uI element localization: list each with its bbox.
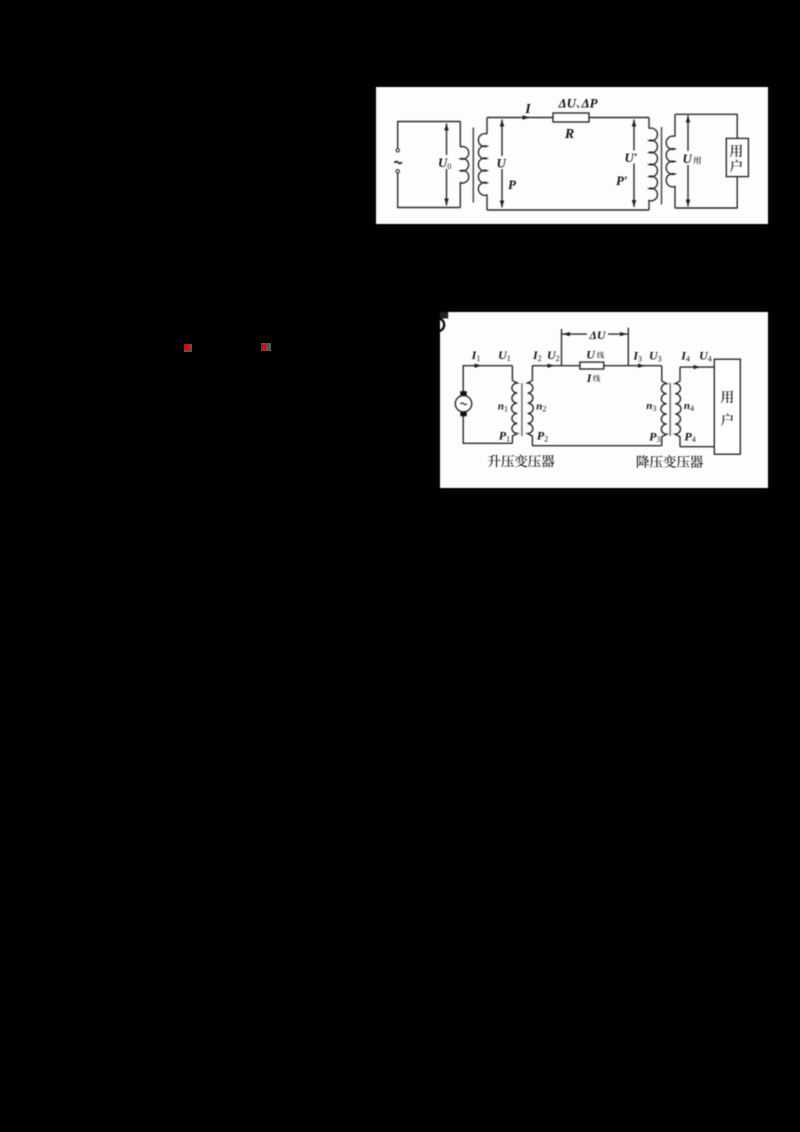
svg-text:I: I [586, 371, 593, 385]
load box user [714, 359, 740, 454]
svg-text:U4: U4 [699, 349, 712, 364]
wire: transmission line top [487, 117, 649, 119]
diagram panel 1: transmission line power loss [376, 87, 768, 224]
wire: user loop bottom [680, 446, 714, 448]
transformer T2 secondary coil [666, 114, 675, 208]
svg-text:I1: I1 [471, 348, 481, 363]
caption step-up transformer [488, 455, 501, 468]
svg-text:U′: U′ [625, 150, 638, 165]
svg-text:R: R [564, 127, 574, 142]
node U dimension arrow [501, 120, 503, 208]
wire: generator loop [398, 122, 461, 208]
node Uprime dimension arrow [633, 120, 635, 208]
label Uprime [624, 151, 641, 164]
load box user [726, 138, 748, 176]
current I1 arrowhead [475, 364, 482, 368]
current I arrowhead [523, 115, 531, 120]
transformer step-down secondary coil n4 [675, 367, 681, 447]
wire: transmission line bottom [487, 209, 649, 211]
current I4 arrowhead [694, 365, 701, 369]
svg-text:ΔU: ΔU [557, 96, 576, 111]
svg-text:n3: n3 [646, 400, 656, 413]
transformer step-up primary coil n1 [511, 366, 517, 444]
red bullet 1 [184, 344, 192, 352]
transformer T2 primary coil [649, 118, 657, 211]
svg-text:U1: U1 [498, 348, 511, 363]
svg-text:P1: P1 [499, 429, 510, 444]
svg-text:I4: I4 [680, 349, 690, 364]
label U_user [682, 151, 701, 165]
svg-text:U: U [497, 156, 507, 171]
wire: line top [532, 365, 661, 367]
AC source terminals [396, 149, 399, 152]
svg-text:n4: n4 [684, 400, 694, 413]
transformer T1 primary coil [460, 122, 468, 208]
svg-text:P4: P4 [684, 429, 695, 444]
svg-text:I3: I3 [632, 349, 642, 364]
svg-text:U: U [683, 151, 693, 166]
AC source tilde [394, 162, 402, 164]
svg-text:U3: U3 [649, 349, 662, 364]
transformer T2 core [661, 127, 663, 205]
current I2 arrowhead [548, 364, 555, 368]
current I3 arrowhead [638, 364, 645, 368]
svg-text:I2: I2 [532, 348, 542, 363]
svg-text:P: P [508, 177, 517, 192]
red bullet 2 [261, 343, 271, 351]
transformer step-up secondary coil n2 [528, 366, 534, 446]
dU dimension lines [561, 329, 563, 366]
transformer T1 secondary coil [478, 118, 487, 211]
svg-text:U: U [586, 348, 596, 362]
svg-text:ΔP: ΔP [581, 96, 599, 111]
svg-text:ΔU: ΔU [588, 328, 607, 342]
dU dimension arrow lines [562, 333, 588, 335]
svg-text:n1: n1 [498, 401, 508, 414]
resistor R box [553, 113, 589, 122]
wire: user loop [675, 114, 737, 208]
wire: generator loop [463, 366, 512, 444]
svg-text:n2: n2 [536, 401, 546, 414]
svg-text:P′: P′ [616, 173, 628, 188]
transformer T1 core [472, 128, 474, 203]
svg-text:P3: P3 [649, 429, 660, 444]
transformer step-down primary coil n3 [661, 366, 667, 446]
wire: line bottom [532, 445, 661, 447]
svg-text:I: I [524, 102, 531, 117]
diagram panel 2: step-up and step-down transformers [440, 312, 768, 488]
load user chars [721, 391, 733, 404]
node Uuser dimension arrow [687, 116, 689, 207]
wire: user loop top [680, 366, 714, 368]
AC generator symbol [455, 396, 471, 412]
transformer step-down core [669, 383, 671, 436]
resistor line box [580, 362, 604, 369]
svg-text:U2: U2 [547, 348, 560, 363]
svg-text:P2: P2 [537, 429, 548, 444]
leftover digit glyph at corner [439, 312, 448, 319]
transformer step-up core [521, 383, 523, 436]
node U0 dimension arrow [446, 124, 448, 206]
label U [496, 156, 509, 169]
label U0 [437, 155, 453, 169]
load user chars [730, 145, 742, 158]
caption step-down transformer [637, 455, 649, 468]
